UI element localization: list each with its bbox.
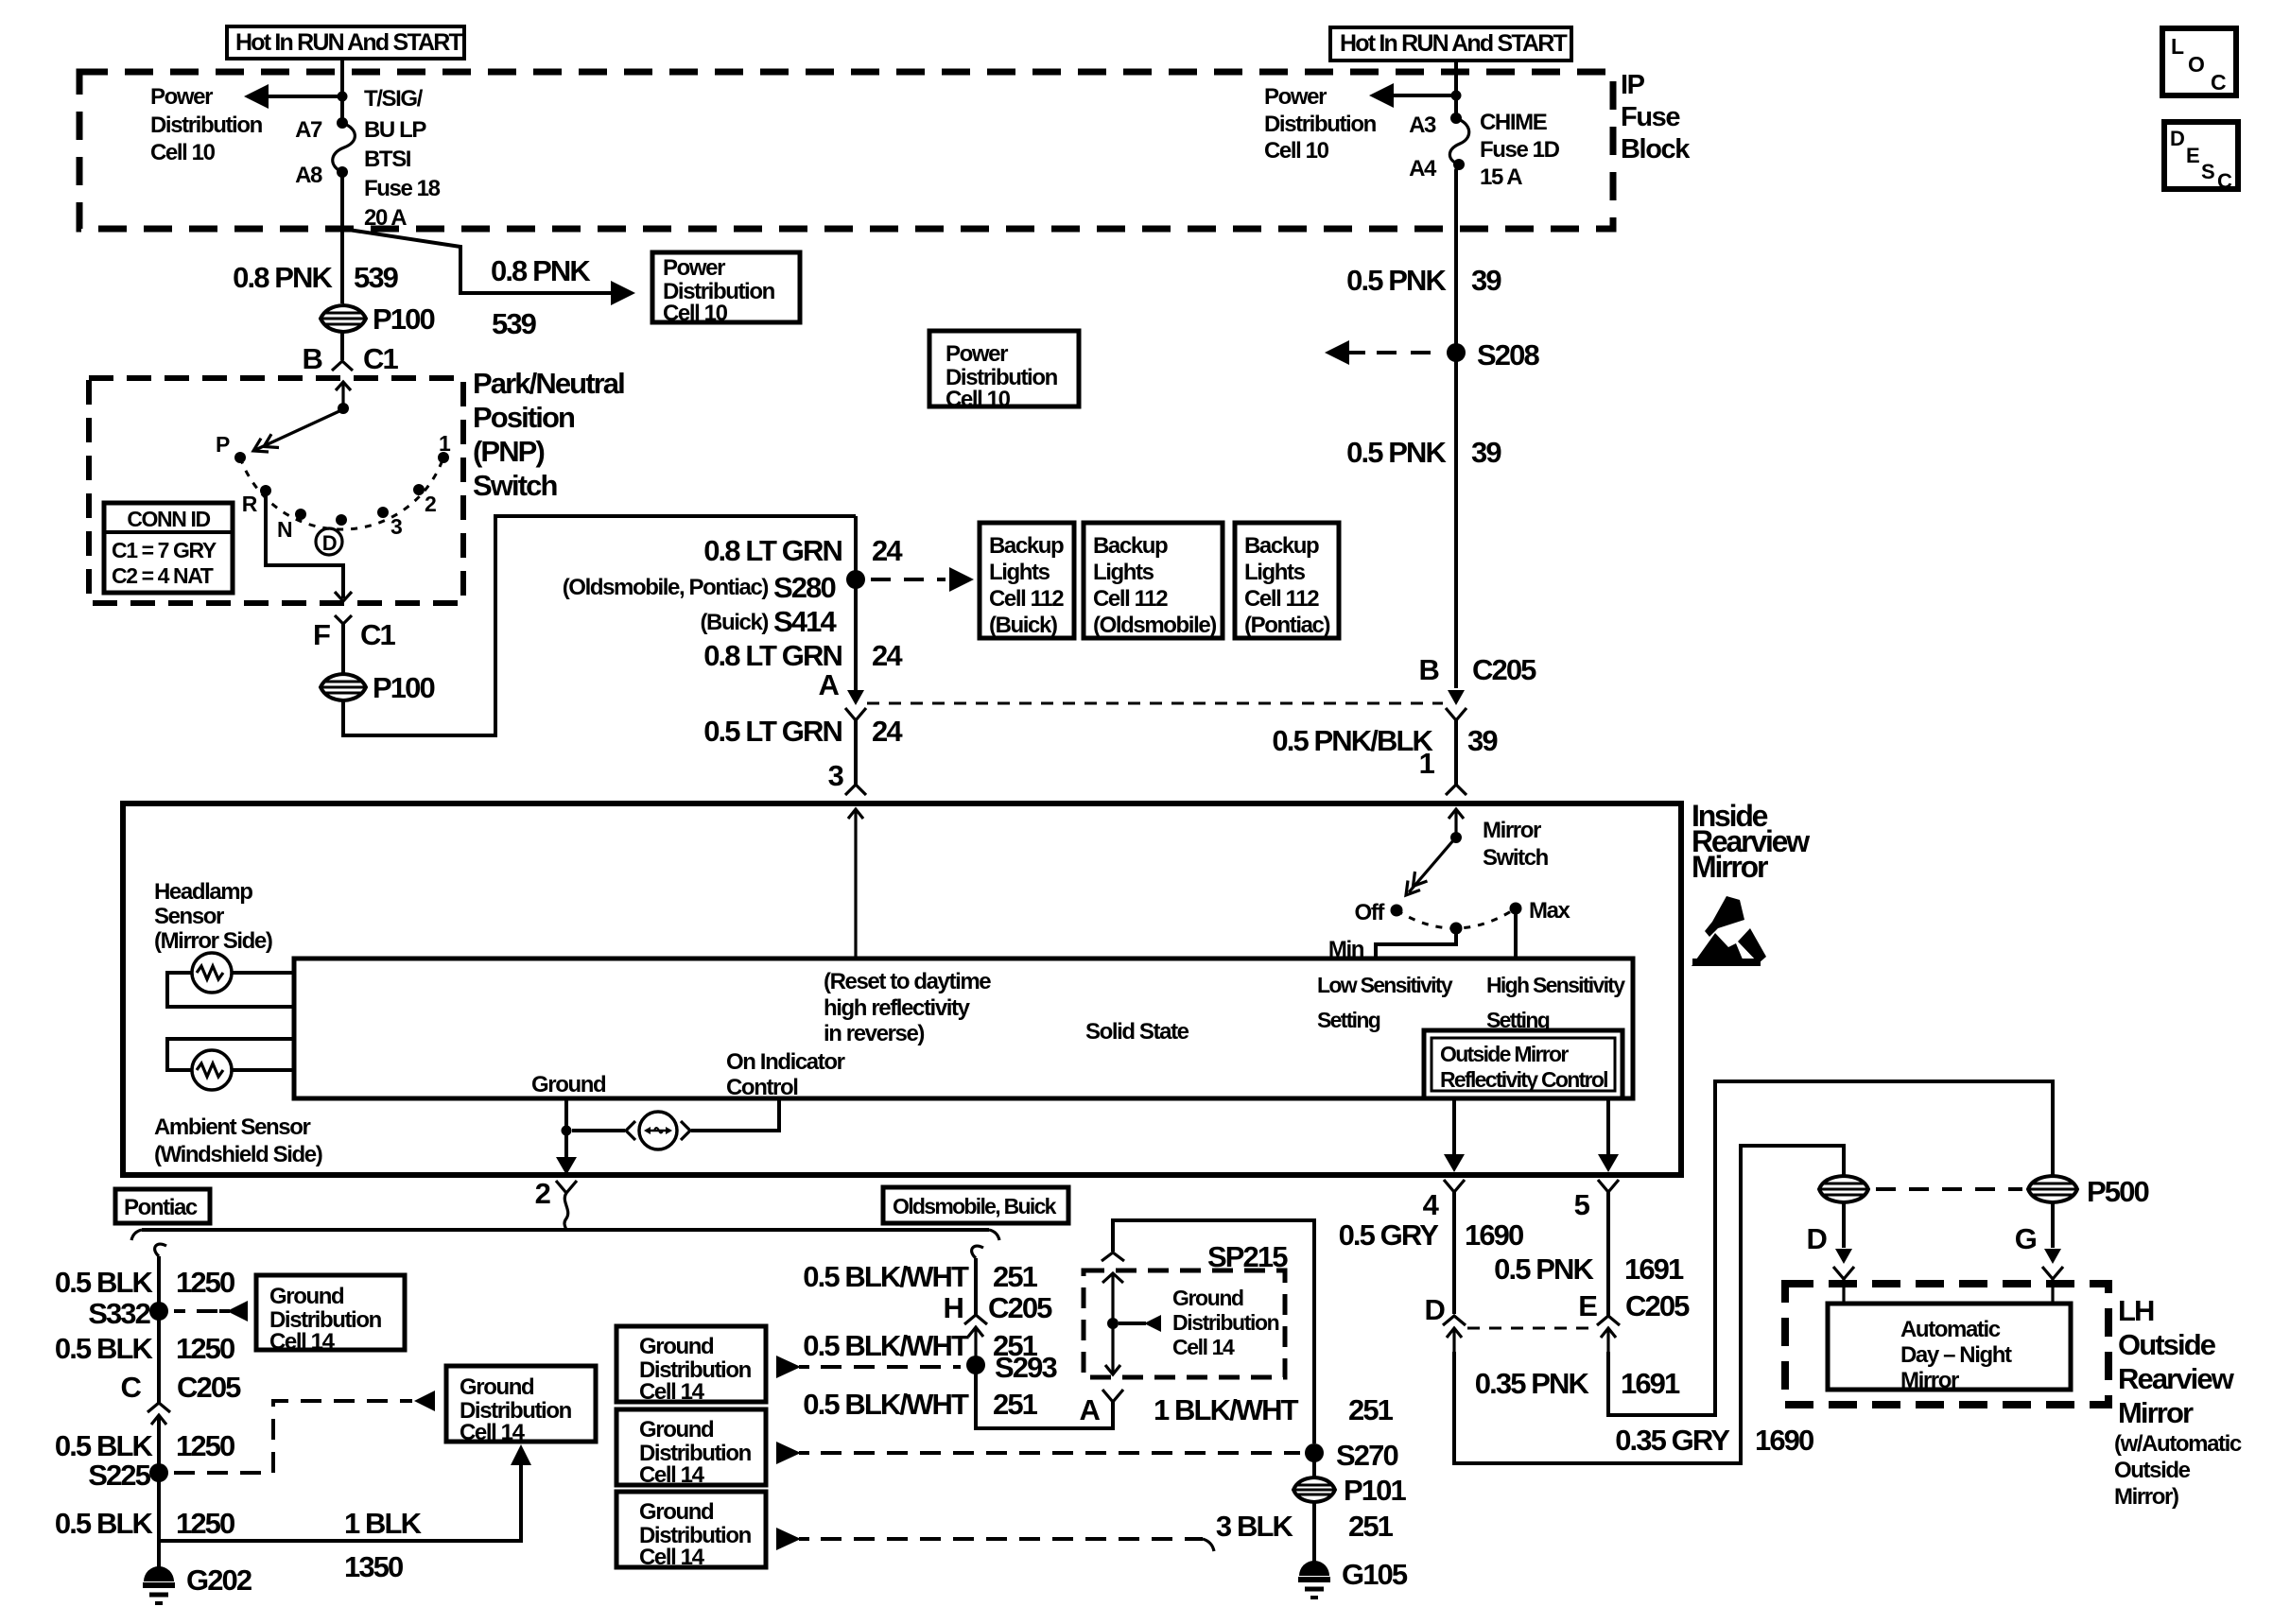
svg-text:0.8 LT GRN: 0.8 LT GRN <box>703 534 842 567</box>
connector C205 pin E (chevron + arrow) <box>1597 1316 1620 1352</box>
svg-text:251: 251 <box>993 1260 1038 1293</box>
svg-text:P100: P100 <box>373 671 434 704</box>
connector C205 pin H (chevron + arrow) <box>964 1315 987 1365</box>
wire below P100 to C1 <box>340 333 344 360</box>
label: 0.8 LT GRN 24 (below S280) <box>703 639 903 672</box>
svg-text:Cell 14: Cell 14 <box>639 1379 705 1405</box>
svg-text:24: 24 <box>872 639 903 672</box>
svg-text:LH: LH <box>2118 1294 2154 1327</box>
svg-text:5: 5 <box>1574 1188 1590 1221</box>
node: switch common <box>338 403 349 414</box>
wire: P500 right to mirror pin G <box>2051 1202 2055 1248</box>
box: Power Distribution Cell 10 (middle right) <box>929 331 1079 412</box>
mirror switch wiper arrow toward Off <box>1406 839 1454 895</box>
label: C205 pin E <box>1578 1289 1690 1322</box>
node: splice S208 <box>1447 343 1466 362</box>
wire: fuse output down through fuse block edge <box>340 172 344 303</box>
label: C205 pin H <box>944 1291 1053 1324</box>
wire: SP215 top feed from S270 column <box>1113 1220 1314 1443</box>
svg-text:Automatic: Automatic <box>1900 1317 2001 1342</box>
arrow pin 4 to box bottom <box>1444 1154 1465 1172</box>
svg-text:Reflectivity Control: Reflectivity Control <box>1440 1067 1607 1092</box>
wire: right feed down through fuse block <box>1454 60 1458 118</box>
svg-text:CONN ID: CONN ID <box>127 507 210 531</box>
Oldsmobile-Buick branch: continuation hook <box>972 1246 983 1258</box>
svg-text:Block: Block <box>1621 134 1691 164</box>
svg-text:(Pontiac): (Pontiac) <box>1244 613 1329 638</box>
dashed line to 3 BLK with hook <box>776 1528 1214 1551</box>
svg-text:D: D <box>2170 127 2184 150</box>
svg-text:Fuse: Fuse <box>1621 102 1680 132</box>
svg-text:Power: Power <box>150 84 213 110</box>
svg-text:Mirror: Mirror <box>1692 850 1768 884</box>
svg-text:Pontiac: Pontiac <box>124 1195 198 1220</box>
label: 0.5 BLK 1250 (3rd) <box>55 1429 234 1462</box>
label: (Reset to daytime high reflectivity in reverse) <box>824 969 991 1046</box>
wire: 1 BLK 1350 branch to Ground Distribution <box>159 1444 531 1541</box>
svg-text:high reflectivity: high reflectivity <box>824 995 971 1021</box>
wire from F to P100 lower <box>341 624 345 674</box>
headlamp sensor (thermistor circle) <box>192 953 232 993</box>
svg-text:0.5 PNK: 0.5 PNK <box>1346 264 1447 297</box>
svg-text:IP: IP <box>1621 70 1645 100</box>
svg-text:Cell 14: Cell 14 <box>639 1545 705 1570</box>
node: splice S225 <box>149 1463 168 1482</box>
svg-text:539: 539 <box>492 307 537 340</box>
ground G105 <box>1298 1558 1408 1598</box>
wire: 0.8 LT GRN down to S280 and C205 pin A <box>854 516 858 690</box>
connector fork pin 5 below box <box>1598 1180 1619 1192</box>
on-indicator lamp with connector chevrons <box>572 1100 779 1149</box>
svg-text:1691: 1691 <box>1624 1253 1684 1286</box>
connector C205 pin A (arrow + fork at dashed line) <box>845 690 866 720</box>
svg-text:in reverse): in reverse) <box>824 1021 924 1046</box>
svg-text:L: L <box>2171 34 2184 59</box>
box: Ground Distribution Cell 14 (G105 row) <box>616 1492 766 1570</box>
svg-text:15 A: 15 A <box>1480 164 1522 190</box>
svg-text:D: D <box>1807 1222 1828 1255</box>
label: 0.8 PNK 539 (branch wire) <box>491 254 591 340</box>
svg-text:Cell 10: Cell 10 <box>663 301 728 326</box>
connector P100 (lower) <box>321 671 434 704</box>
svg-text:Cell 14: Cell 14 <box>1172 1335 1235 1359</box>
svg-text:BU LP: BU LP <box>364 117 426 143</box>
wire: arrow to Power Distribution Cell 10 (left) <box>244 84 342 109</box>
svg-text:0.5 PNK: 0.5 PNK <box>1494 1253 1594 1286</box>
svg-text:1 BLK: 1 BLK <box>344 1507 423 1540</box>
svg-text:3: 3 <box>390 514 402 539</box>
dashed arrow from S208 to Power Distribution box <box>1325 340 1431 365</box>
svg-text:P500: P500 <box>2087 1175 2148 1208</box>
ambient sensor label <box>154 1114 322 1167</box>
node: splice S332 <box>149 1302 168 1321</box>
svg-text:Headlamp: Headlamp <box>154 879 252 905</box>
svg-text:251: 251 <box>1348 1393 1394 1426</box>
node: junction to Power Distribution (right) <box>1451 91 1462 101</box>
svg-text:(w/Automatic: (w/Automatic <box>2114 1431 2242 1457</box>
svg-text:Cell 10: Cell 10 <box>150 140 216 165</box>
svg-text:(Mirror Side): (Mirror Side) <box>154 928 272 954</box>
node: splice S270 <box>1305 1443 1324 1462</box>
circled D contact label <box>316 528 342 555</box>
node on ground wire <box>562 1126 572 1136</box>
svg-text:24: 24 <box>872 534 903 567</box>
svg-text:0.5 BLK/WHT: 0.5 BLK/WHT <box>803 1260 969 1293</box>
svg-text:H: H <box>944 1291 963 1324</box>
label: 1 BLK 1350 <box>344 1507 423 1583</box>
svg-text:20 A: 20 A <box>364 205 407 231</box>
wire: left feed from Hot box into fuse block <box>340 59 344 120</box>
svg-text:F: F <box>313 618 330 651</box>
svg-text:S332: S332 <box>88 1297 149 1330</box>
svg-text:Ground: Ground <box>1172 1286 1243 1310</box>
svg-text:Position: Position <box>473 401 575 434</box>
label: 0.5 BLK 1250 (4th) <box>55 1507 234 1540</box>
ground wire from module <box>564 1098 568 1165</box>
dashed arrow from S280 to Backup Lights boxes <box>871 567 974 592</box>
svg-text:Ground: Ground <box>460 1374 534 1400</box>
svg-text:39: 39 <box>1467 724 1498 757</box>
label: 0.5 PNK 1691 <box>1494 1253 1684 1286</box>
svg-text:Cell 112: Cell 112 <box>1244 586 1319 612</box>
svg-text:C: C <box>2211 70 2226 95</box>
arrow+fork into LH mirror pin G <box>2042 1249 2063 1304</box>
label: 0.5 GRY 1690 <box>1339 1218 1523 1252</box>
LH Outside Rearview Mirror dashed box <box>1785 1284 2108 1405</box>
svg-text:O: O <box>2188 52 2204 77</box>
arrow to Ground Distribution text (inside SP215) <box>1119 1286 1279 1359</box>
label: (Buick) S414 <box>700 605 837 638</box>
svg-text:S280: S280 <box>773 571 835 604</box>
dashed line between P500 halves <box>1876 1187 2022 1191</box>
svg-text:1690: 1690 <box>1465 1218 1523 1252</box>
svg-text:Day – Night: Day – Night <box>1900 1342 2012 1368</box>
label: Power Distribution Cell 10 (right) <box>1264 84 1377 164</box>
box: Ground Distribution Cell 14 (S225) <box>446 1366 596 1445</box>
svg-text:Outside: Outside <box>2118 1328 2216 1361</box>
svg-text:2: 2 <box>535 1177 550 1210</box>
dashed travel arc Off-Min-Max <box>1397 908 1516 928</box>
label: 0.5 PNK 39 (below S208) <box>1346 436 1501 469</box>
svg-text:Outside Mirror: Outside Mirror <box>1440 1042 1569 1066</box>
label: On Indicator Control <box>726 1049 845 1100</box>
box: Backup Lights Cell 112 (Pontiac) <box>1235 523 1339 638</box>
svg-text:Cell 14: Cell 14 <box>269 1329 336 1355</box>
svg-text:Cell 14: Cell 14 <box>639 1462 705 1488</box>
mirror switch: wire from pin 1 to pivot <box>1450 832 1462 843</box>
svg-text:A: A <box>819 668 840 701</box>
svg-text:P100: P100 <box>373 302 434 336</box>
svg-text:P101: P101 <box>1344 1474 1406 1507</box>
DESC reference box <box>2164 122 2238 193</box>
ambient sensor leads <box>167 1039 294 1070</box>
svg-text:0.8 PNK: 0.8 PNK <box>491 254 591 287</box>
svg-text:C1: C1 <box>363 342 398 375</box>
label: CHIME Fuse 1D 15 A <box>1480 110 1560 190</box>
label: Mirror Switch <box>1483 818 1549 871</box>
IP Fuse Block label <box>1621 70 1691 164</box>
label: fuse pins A7 A8 <box>295 117 322 188</box>
dashed line C205 harness (A to B) <box>867 702 1443 705</box>
CONN ID table <box>104 503 233 593</box>
svg-text:0.5 BLK: 0.5 BLK <box>55 1507 154 1540</box>
switch contact Min (wiper position) <box>1450 923 1463 935</box>
node: splice S293 <box>966 1356 985 1374</box>
wire: 0.5 GRY 1690 <box>1452 1192 1456 1314</box>
label: LH Outside Rearview Mirror (w/Automatic Outside Mirror) <box>2114 1294 2242 1510</box>
contact labels P 1 R 2 N 3 <box>216 431 451 542</box>
label: fuse pins A3 A4 <box>1409 112 1437 181</box>
svg-text:539: 539 <box>354 261 399 294</box>
solid state module box <box>294 959 1633 1098</box>
box: Ground Distribution Cell 14 (S293 row) <box>616 1326 766 1405</box>
svg-text:0.8 PNK: 0.8 PNK <box>233 261 333 294</box>
svg-text:G: G <box>2015 1222 2037 1255</box>
svg-text:Max: Max <box>1529 898 1571 924</box>
svg-text:0.5 BLK: 0.5 BLK <box>55 1266 154 1299</box>
svg-text:C205: C205 <box>1472 653 1536 686</box>
Oldsmobile, Buick label box <box>883 1187 1068 1223</box>
svg-text:D: D <box>322 531 337 555</box>
wire: 0.5 PNK/BLK from B to pin 1 <box>1454 720 1458 785</box>
svg-text:Low Sensitivity: Low Sensitivity <box>1317 973 1453 997</box>
svg-text:Lights: Lights <box>989 560 1050 585</box>
svg-text:S293: S293 <box>995 1351 1057 1384</box>
wire: Max tap into module <box>1514 908 1518 959</box>
connector: mirror pin 1 (fork above box, arrow inside) <box>1446 785 1466 838</box>
ESD warning symbol <box>1692 896 1766 966</box>
svg-text:R: R <box>242 492 258 516</box>
svg-text:Backup: Backup <box>1093 533 1168 559</box>
dashed arc of rotary switch <box>240 458 443 529</box>
svg-text:S208: S208 <box>1477 338 1539 371</box>
dashed arrow to S270 <box>776 1442 1300 1464</box>
wire: PNP output runs right and up to backup-lamp feed <box>343 516 856 735</box>
svg-text:0.5 GRY: 0.5 GRY <box>1339 1218 1440 1252</box>
svg-text:T/SIG/: T/SIG/ <box>364 86 424 112</box>
svg-text:Lights: Lights <box>1244 560 1306 585</box>
dashed line C205 harness (D to E) <box>1467 1327 1595 1330</box>
label: Inside Rearview Mirror <box>1692 799 1810 884</box>
svg-text:0.5 BLK: 0.5 BLK <box>55 1429 154 1462</box>
svg-text:1250: 1250 <box>176 1429 234 1462</box>
connector fork pin 4 below box <box>1444 1180 1465 1192</box>
switch wiper arrow to P <box>253 410 341 452</box>
svg-text:Lights: Lights <box>1093 560 1154 585</box>
svg-text:Ground: Ground <box>639 1417 714 1443</box>
svg-text:C205: C205 <box>988 1291 1052 1324</box>
wire P101 to G105 <box>1312 1502 1316 1562</box>
label: 0.5 BLK 1250 (1st) <box>55 1266 234 1299</box>
svg-text:Cell 10: Cell 10 <box>946 387 1011 412</box>
box: Power Distribution Cell 10 (top middle) <box>652 252 800 326</box>
svg-text:(Oldsmobile, Pontiac): (Oldsmobile, Pontiac) <box>563 575 769 600</box>
Park/Neutral Position (PNP) Switch dashed box <box>89 378 463 603</box>
wire: 0.35 GRY 1690 route to left P500 lens <box>1454 1146 1844 1463</box>
svg-text:B: B <box>303 342 322 375</box>
IP Fuse Block dashed box <box>79 72 1613 229</box>
svg-text:3: 3 <box>828 759 844 792</box>
svg-text:Cell 10: Cell 10 <box>1264 138 1329 164</box>
label: 0.5 BLK/WHT 251 (1st) <box>803 1260 1037 1293</box>
SP215 dashed splice pack box <box>1084 1270 1285 1377</box>
node inside SP215 <box>1107 1318 1119 1329</box>
svg-text:Fuse 18: Fuse 18 <box>364 176 441 201</box>
svg-text:Setting: Setting <box>1317 1008 1380 1032</box>
arrow into PNP switch <box>336 382 351 408</box>
wire: Pontiac 0.5 BLK down to G202 <box>157 1256 161 1403</box>
svg-text:39: 39 <box>1471 436 1501 469</box>
arrow into Power Distribution box <box>611 281 635 305</box>
svg-text:Switch: Switch <box>473 469 557 502</box>
svg-text:Off: Off <box>1355 900 1386 925</box>
wire: arrow to Power Distribution Cell 10 (right) <box>1369 83 1456 108</box>
headlamp sensor label <box>154 879 272 954</box>
svg-text:E: E <box>2186 144 2199 167</box>
fuse 18 symbol (BTSI fuse) <box>333 117 356 178</box>
wire: reflectivity output 5 <box>1606 1098 1610 1158</box>
svg-text:1350: 1350 <box>344 1550 403 1583</box>
wire: 0.5 LT GRN from A to pin 3 <box>854 720 858 785</box>
svg-text:(Reset to daytime: (Reset to daytime <box>824 969 991 994</box>
svg-text:E: E <box>1578 1289 1597 1322</box>
svg-text:1 BLK/WHT: 1 BLK/WHT <box>1154 1393 1299 1426</box>
svg-text:C205: C205 <box>177 1371 241 1404</box>
label: High Sensitivity Setting <box>1486 973 1625 1032</box>
label: Park/Neutral Position (PNP) Switch <box>473 367 624 502</box>
svg-text:Rearview: Rearview <box>2118 1362 2235 1395</box>
wire: 0.5 PNK from fuse to S208 and C205 <box>1456 164 1459 688</box>
label: 0.8 LT GRN 24 (above S280) <box>703 534 903 567</box>
svg-text:Distribution: Distribution <box>1172 1310 1279 1335</box>
LOC reference box <box>2162 28 2236 95</box>
label: 1 BLK/WHT 251 <box>1154 1393 1394 1426</box>
svg-text:Ground: Ground <box>639 1334 714 1359</box>
svg-text:Oldsmobile, Buick: Oldsmobile, Buick <box>893 1194 1057 1218</box>
label: C205 pin B <box>1419 653 1537 686</box>
Pontiac label box <box>115 1189 210 1223</box>
svg-text:Mirror: Mirror <box>2118 1396 2194 1429</box>
node: junction to Power Distribution (left) <box>338 92 348 102</box>
connector P500 (right lens) <box>2028 1175 2148 1208</box>
wire: Min tap into module <box>1376 928 1456 959</box>
svg-text:39: 39 <box>1471 264 1501 297</box>
svg-text:Solid State: Solid State <box>1085 1019 1189 1045</box>
svg-text:Cell 112: Cell 112 <box>1093 586 1168 612</box>
node: splice S280 <box>846 570 865 589</box>
dashed arrow S332 to Ground Distribution <box>174 1301 248 1322</box>
svg-text:Cell 14: Cell 14 <box>460 1420 526 1445</box>
power feed box "Hot In RUN And START" (right) <box>1330 27 1571 60</box>
svg-text:Distribution: Distribution <box>1264 112 1377 137</box>
connector P100 (upper) <box>321 302 434 336</box>
arrow pin 5 to box bottom <box>1598 1154 1619 1172</box>
label: 0.35 PNK 1691 <box>1475 1367 1680 1400</box>
svg-text:1690: 1690 <box>1755 1424 1813 1457</box>
svg-text:High Sensitivity: High Sensitivity <box>1486 973 1625 997</box>
svg-text:251: 251 <box>993 1388 1038 1421</box>
Pontiac branch: continuation hook <box>155 1244 166 1256</box>
label: C205 pin C <box>121 1371 242 1404</box>
svg-text:0.5 BLK/WHT: 0.5 BLK/WHT <box>803 1388 969 1421</box>
svg-text:Cell 112: Cell 112 <box>989 586 1064 612</box>
power feed box "Hot In RUN And START" (left) <box>227 26 464 59</box>
switch contact Off <box>1391 905 1403 917</box>
svg-text:Distribution: Distribution <box>150 112 263 138</box>
bus wire from pin 2 (Pontiac / Oldsmobile-Buick) <box>142 1228 989 1232</box>
dashed arrow to S293 <box>776 1356 961 1378</box>
svg-text:A7: A7 <box>295 117 322 143</box>
connector C205 pin D (chevron + arrow) <box>1443 1316 1466 1352</box>
svg-text:Outside: Outside <box>2114 1458 2191 1483</box>
svg-text:Power: Power <box>1264 84 1327 110</box>
label: 0.5 BLK/WHT 251 (2nd) <box>803 1329 1037 1362</box>
svg-text:C205: C205 <box>1625 1289 1690 1322</box>
svg-text:Park/Neutral: Park/Neutral <box>473 367 624 400</box>
wire: reflectivity output 4 <box>1452 1098 1456 1158</box>
box: Ground Distribution Cell 14 (S332) <box>256 1275 405 1355</box>
svg-text:Mirror): Mirror) <box>2114 1484 2178 1510</box>
label: 0.5 PNK/BLK 39 <box>1272 724 1498 757</box>
wire from R contact to switch output <box>266 491 343 598</box>
label: 3 BLK 251 <box>1216 1510 1394 1543</box>
svg-text:0.5 PNK: 0.5 PNK <box>1346 436 1447 469</box>
svg-text:Ground: Ground <box>269 1284 344 1309</box>
svg-text:251: 251 <box>1348 1510 1394 1543</box>
box: Backup Lights Cell 112 (Oldsmobile) <box>1084 523 1223 638</box>
wire: branch to Power Distribution (0.8 PNK 539) <box>342 229 615 293</box>
label: (Oldsmobile, Pontiac) S280 <box>563 571 836 604</box>
svg-text:A3: A3 <box>1409 112 1436 138</box>
label: Low Sensitivity Setting <box>1317 973 1453 1032</box>
svg-text:3 BLK: 3 BLK <box>1216 1510 1294 1543</box>
svg-text:BTSI: BTSI <box>364 147 411 172</box>
svg-text:Mirror: Mirror <box>1483 818 1541 843</box>
svg-text:On Indicator: On Indicator <box>726 1049 845 1075</box>
svg-text:2: 2 <box>425 492 436 516</box>
svg-text:Power: Power <box>663 255 725 281</box>
label: B C1 <box>303 342 399 375</box>
svg-text:Sensor: Sensor <box>154 904 224 929</box>
ground G202 <box>143 1564 252 1603</box>
svg-text:0.5 LT GRN: 0.5 LT GRN <box>703 715 842 748</box>
wire: 0.5 PNK 1691 <box>1606 1192 1610 1316</box>
svg-text:Backup: Backup <box>989 533 1064 559</box>
svg-text:N: N <box>277 517 292 542</box>
bus end hooks <box>131 1230 142 1240</box>
svg-text:0.35 GRY: 0.35 GRY <box>1615 1424 1730 1457</box>
Outside Mirror Reflectivity Control box <box>1424 1030 1622 1098</box>
connector: mirror pin 3 (fork above box, arrow inside) <box>845 785 866 959</box>
label: 0.5 BLK 1250 (2nd) <box>55 1332 234 1365</box>
svg-text:P: P <box>216 432 230 457</box>
svg-text:Ground: Ground <box>531 1072 606 1097</box>
svg-text:D: D <box>1425 1293 1446 1326</box>
svg-text:0.35 PNK: 0.35 PNK <box>1475 1367 1590 1400</box>
svg-text:C: C <box>121 1371 142 1404</box>
connector SP215 top (chevron + fork) <box>1102 1253 1124 1323</box>
connector C1 pin F (fork below PNP box) <box>335 615 352 624</box>
label: Power Distribution Cell 10 (left) <box>150 84 263 165</box>
svg-text:4: 4 <box>1423 1188 1440 1221</box>
connector C1 pin B (fork) <box>332 361 353 371</box>
label: 0.5 PNK 39 (above S208) <box>1346 264 1501 297</box>
headlamp sensor leads <box>167 973 294 1007</box>
svg-text:Backup: Backup <box>1244 533 1319 559</box>
svg-text:S414: S414 <box>773 605 837 638</box>
label: F C1 <box>313 618 396 651</box>
label: 0.35 GRY 1690 <box>1615 1424 1813 1457</box>
